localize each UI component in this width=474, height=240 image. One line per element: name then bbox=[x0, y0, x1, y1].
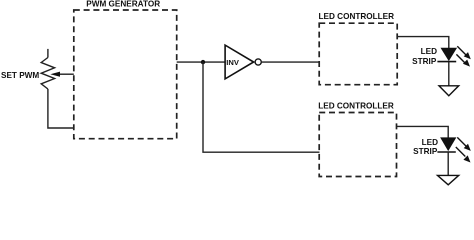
PWM generator block U1 bbox=[74, 10, 177, 139]
svg-text:LED: LED bbox=[421, 47, 437, 56]
junction node A bbox=[201, 60, 205, 64]
LED D1 emission arrow 1 bbox=[457, 46, 466, 55]
potentiometer R1 top stub bbox=[47, 49, 49, 58]
inverter U2 triangle bbox=[225, 45, 254, 79]
wire LED controller 2 output to LED strip 2 bbox=[397, 126, 449, 137]
LED D2 anode triangle bbox=[441, 138, 456, 150]
svg-text:LED CONTROLLER: LED CONTROLLER bbox=[318, 101, 394, 110]
LED D2 emission arrow 2 bbox=[456, 147, 466, 157]
LED D2 cathode bar bbox=[437, 151, 455, 153]
wire node A down to LED controller 2 bbox=[203, 62, 320, 152]
wire PWM generator output to inverter input bbox=[177, 61, 225, 63]
svg-text:SET PWM: SET PWM bbox=[1, 71, 39, 80]
potentiometer R1 body bbox=[41, 58, 54, 90]
svg-text:PWM GENERATOR: PWM GENERATOR bbox=[86, 0, 160, 8]
svg-text:STRIP: STRIP bbox=[412, 57, 437, 66]
inverter U2 bubble bbox=[255, 59, 261, 65]
svg-text:LED CONTROLLER: LED CONTROLLER bbox=[319, 12, 395, 21]
ground 1 bbox=[439, 86, 459, 96]
ground 2 bbox=[438, 175, 459, 184]
LED D2 emission arrow 1 bbox=[457, 137, 466, 146]
LED controller 1 block bbox=[319, 23, 397, 84]
LED controller 2 block bbox=[319, 113, 396, 177]
wire LED D1 cathode to ground bbox=[448, 62, 450, 86]
svg-text:STRIP: STRIP bbox=[413, 147, 438, 156]
svg-text:INV: INV bbox=[226, 58, 240, 67]
wire LED D2 cathode to ground bbox=[447, 152, 449, 175]
wire LED controller 1 output to LED strip 1 bbox=[397, 37, 449, 49]
wire inverter output to LED controller 1 bbox=[262, 61, 320, 63]
svg-text:LED: LED bbox=[422, 138, 438, 147]
LED D1 cathode bar bbox=[437, 61, 456, 63]
potentiometer R1 wiper arrow bbox=[58, 73, 74, 75]
LED D1 anode triangle bbox=[441, 48, 456, 60]
LED D1 emission arrow 2 bbox=[456, 54, 465, 63]
wire R1 bottom to PWM generator bbox=[48, 89, 74, 128]
